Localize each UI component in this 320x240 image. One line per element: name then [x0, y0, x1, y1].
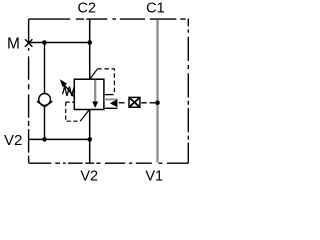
pilot piston bottom edge [104, 107, 118, 109]
counterbalance valve main envelope (square) [74, 79, 104, 109]
flow passage inside valve (gray) [94, 80, 96, 103]
flow direction arrowhead [92, 102, 98, 108]
node: check valve branch on M line [42, 40, 47, 45]
node: M line tee on C2 line [87, 40, 92, 45]
dashed vent loop (bottom-left): vertical and bottom [66, 102, 81, 121]
wire: C2 port line [89, 19, 91, 79]
svg-text:V1: V1 [145, 168, 163, 184]
wire: check valve upper line [44, 43, 46, 94]
wire: V2 left port line [29, 138, 90, 140]
dashed vent loop (bottom-left): dash to square left edge [66, 101, 75, 103]
pilot piston bracket (top line) [104, 94, 114, 96]
dashed vent loop: diagonal to output line [80, 110, 89, 121]
wire: V2 output line from valve [89, 110, 91, 164]
orifice (box with X) [129, 97, 140, 107]
svg-text:V2: V2 [4, 132, 22, 149]
pilot line: dash to orifice [119, 102, 125, 104]
svg-text:C2: C2 [78, 1, 97, 17]
wire: C1-V1 through line (gray) [156, 20, 158, 163]
pilot line: dashes orifice to V1 line [141, 102, 155, 104]
adjustable spring [63, 87, 75, 96]
node: check valve tee on V2 line [42, 137, 47, 142]
dashed pilot loop (top-right): dashes [97, 69, 114, 95]
body boundary top (dash-dot) [29, 18, 186, 20]
spring adjustment arrow shaft [62, 82, 75, 98]
pilot piston top edge (gray) [104, 98, 117, 100]
node: V2 output tee [87, 137, 92, 142]
body boundary right (dash-dot) [187, 19, 189, 164]
body boundary bottom (dash-dot) [29, 162, 189, 164]
wire: check valve lower line [44, 107, 46, 139]
pilot arrowhead [110, 99, 118, 107]
check valve: seat [37, 101, 53, 107]
svg-text:V2: V2 [80, 168, 98, 184]
plugged port M (X symbol) [25, 39, 32, 47]
svg-text:C1: C1 [146, 1, 165, 17]
check valve: ball [39, 94, 51, 106]
wire: M port line [29, 42, 90, 44]
dashed pilot loop (top-right): diagonal tap [90, 69, 97, 78]
body boundary left (dash-dot) [28, 19, 30, 163]
svg-text:M: M [7, 36, 20, 53]
spring adjustment arrowhead [60, 79, 67, 87]
node: pilot tap on V1 line [155, 100, 160, 105]
